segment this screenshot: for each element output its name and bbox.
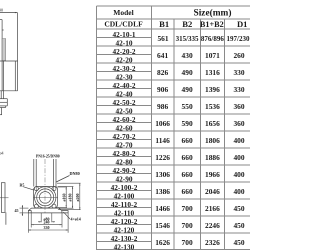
svg-text:2246: 2246 xyxy=(205,221,220,230)
bolt hole top-left xyxy=(34,187,38,191)
bolt hole bottom-right xyxy=(52,204,56,208)
port dim outside arrows xyxy=(38,221,41,223)
svg-text:660: 660 xyxy=(182,187,193,196)
group row lines (full width) xyxy=(97,45,251,47)
side view lower extension xyxy=(5,212,7,224)
svg-text:4×ø14: 4×ø14 xyxy=(71,217,81,222)
right extension line xyxy=(17,13,19,91)
svg-text:1806: 1806 xyxy=(205,136,220,145)
svg-text:590: 590 xyxy=(182,119,193,128)
svg-text:ø200: ø200 xyxy=(75,194,80,202)
svg-text:240: 240 xyxy=(44,220,50,225)
table outer top border xyxy=(97,5,251,7)
pump head box right edge xyxy=(6,99,8,106)
svg-text:986: 986 xyxy=(157,102,168,111)
svg-text:1546: 1546 xyxy=(155,221,170,230)
svg-text:Size(mm): Size(mm) xyxy=(193,8,231,19)
svg-text:360: 360 xyxy=(233,119,244,128)
svg-text:660: 660 xyxy=(182,170,193,179)
svg-text:Model: Model xyxy=(113,8,133,17)
pump head box bottom xyxy=(0,105,7,107)
horizontal centerline xyxy=(0,197,9,199)
svg-text:660: 660 xyxy=(182,136,193,145)
svg-text:700: 700 xyxy=(182,204,193,213)
svg-text:197/230: 197/230 xyxy=(227,35,250,43)
svg-text:260: 260 xyxy=(233,51,244,60)
base plate outline xyxy=(28,208,68,213)
dim line 3 xyxy=(79,183,81,210)
svg-text:ø180: ø180 xyxy=(68,194,73,202)
svg-text:641: 641 xyxy=(157,51,168,60)
svg-text:1966: 1966 xyxy=(205,170,220,179)
pump sleeve inner lines xyxy=(14,61,16,91)
svg-text:1466: 1466 xyxy=(155,204,170,213)
bolt hole bottom-left xyxy=(34,204,38,208)
motor bottom line xyxy=(0,60,18,62)
svg-text:490: 490 xyxy=(182,85,193,94)
svg-text:400: 400 xyxy=(233,136,244,145)
svg-text:B2: B2 xyxy=(182,19,192,29)
side view rect (far left, cut) xyxy=(1,183,5,213)
4xO14 leader xyxy=(64,212,71,219)
svg-text:490: 490 xyxy=(182,68,193,77)
motor flange tick xyxy=(2,29,4,31)
svg-text:45: 45 xyxy=(15,208,19,213)
overall dim extension lines xyxy=(27,213,29,233)
base left end notch xyxy=(28,211,31,213)
svg-text:826: 826 xyxy=(157,68,168,77)
pump neck lines xyxy=(0,91,2,99)
port bore circle xyxy=(39,192,51,204)
svg-text:1066: 1066 xyxy=(155,119,170,128)
header row divider xyxy=(97,18,251,20)
svg-text:700: 700 xyxy=(182,238,193,247)
table left border xyxy=(96,6,98,250)
svg-text:2046: 2046 xyxy=(205,187,220,196)
svg-text:1226: 1226 xyxy=(155,153,170,162)
svg-text:315/335: 315/335 xyxy=(176,35,199,43)
model column half-row lines xyxy=(97,37,152,39)
bolt dim line xyxy=(31,224,62,226)
model/size column divider xyxy=(151,6,153,250)
svg-text:876/896: 876/896 xyxy=(201,35,224,43)
svg-text:450: 450 xyxy=(233,204,244,213)
svg-text:ø160: ø160 xyxy=(61,194,66,202)
svg-text:2326: 2326 xyxy=(205,238,220,247)
svg-text:DN80: DN80 xyxy=(70,171,80,176)
R5 leader xyxy=(24,187,35,190)
top dimension line with right arrow xyxy=(0,12,17,14)
svg-text:B1: B1 xyxy=(159,19,169,29)
pump head box top xyxy=(0,98,7,100)
svg-text:CDL/CDLF: CDL/CDLF xyxy=(104,20,143,29)
svg-text:360: 360 xyxy=(233,102,244,111)
svg-text:561: 561 xyxy=(157,34,168,43)
svg-text:330: 330 xyxy=(233,68,244,77)
svg-text:B1+B2: B1+B2 xyxy=(200,20,224,29)
square flange plate xyxy=(34,187,58,209)
vertical centerline xyxy=(44,159,46,213)
header bottom line xyxy=(97,28,251,30)
svg-text:1071: 1071 xyxy=(205,51,220,60)
port dim extension lines xyxy=(40,213,42,222)
svg-text:906: 906 xyxy=(157,85,168,94)
value cells xyxy=(155,34,250,247)
foot step xyxy=(5,106,7,108)
flange raised face circle xyxy=(37,189,54,206)
svg-text:660: 660 xyxy=(182,153,193,162)
svg-text:1626: 1626 xyxy=(155,238,170,247)
svg-text:430: 430 xyxy=(182,51,193,60)
chamber stack bottom xyxy=(0,90,18,92)
left thickness dim line xyxy=(21,205,23,216)
svg-text:330: 330 xyxy=(233,85,244,94)
dimension annotations of front view xyxy=(15,183,81,233)
cylinder lines into flange xyxy=(35,187,37,192)
svg-text:1396: 1396 xyxy=(205,85,220,94)
cylinder inner walls xyxy=(35,159,37,187)
right dim extension lines xyxy=(56,186,67,188)
left thickness dim: extension ticks xyxy=(20,207,29,209)
svg-text:330: 330 xyxy=(44,225,50,230)
table header text xyxy=(104,8,247,30)
dim line 2 xyxy=(72,187,74,209)
svg-text:D1: D1 xyxy=(237,19,248,29)
svg-text:1306: 1306 xyxy=(155,170,170,179)
motor top edge xyxy=(0,19,2,21)
svg-text:450: 450 xyxy=(233,221,244,230)
svg-text:1386: 1386 xyxy=(155,187,170,196)
bolt dim extension lines xyxy=(30,213,32,228)
bolt hole top-right xyxy=(52,187,56,191)
flange outer circle xyxy=(35,187,56,208)
svg-text:1656: 1656 xyxy=(205,119,220,128)
foot stub line xyxy=(1,108,3,115)
svg-text:400: 400 xyxy=(233,187,244,196)
svg-text:400: 400 xyxy=(233,153,244,162)
svg-text:1886: 1886 xyxy=(205,153,220,162)
svg-text:550: 550 xyxy=(182,102,193,111)
pump head box mid line xyxy=(0,101,7,103)
svg-text:1316: 1316 xyxy=(205,68,220,77)
motor right edge xyxy=(1,20,3,91)
base right slot xyxy=(61,211,63,213)
svg-text:700: 700 xyxy=(182,221,193,230)
model column texts xyxy=(111,30,138,250)
shaded block (coupling) xyxy=(2,39,6,61)
svg-text:PN16-25/DN80: PN16-25/DN80 xyxy=(36,154,60,158)
svg-text:42-130: 42-130 xyxy=(114,242,135,250)
B1/B2 divider xyxy=(173,19,175,250)
svg-text:1536: 1536 xyxy=(205,102,220,111)
DN80 leader line xyxy=(56,176,69,183)
svg-text:1146: 1146 xyxy=(155,136,170,145)
B1+B2/D1 divider xyxy=(223,19,225,250)
cylinder outer walls xyxy=(33,159,35,187)
dim line 1 xyxy=(65,187,67,208)
svg-text:2166: 2166 xyxy=(205,204,220,213)
svg-text:400: 400 xyxy=(233,170,244,179)
B2/B1+B2 divider xyxy=(199,19,201,250)
overall dim line xyxy=(28,229,68,231)
svg-text:ø4: ø4 xyxy=(0,151,4,156)
svg-text:90: 90 xyxy=(0,8,3,13)
svg-text:450: 450 xyxy=(233,238,244,247)
